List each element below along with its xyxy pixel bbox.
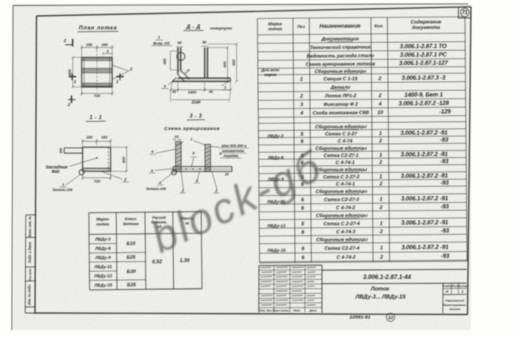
svg-text:Фиксатор Ф 2: Фиксатор Ф 2 [323,102,358,108]
svg-text:ЛВДу-6: ЛВДу-6 [94,246,111,251]
svg-text:90: 90 [202,41,206,45]
svg-text:-129: -129 [439,109,451,115]
svg-text:5: 5 [300,132,303,138]
svg-text:ЛВДу-9: ЛВДу-9 [94,255,111,260]
svg-text:Б25: Б25 [127,255,136,261]
svg-text:Подп.: Подп. [293,309,301,313]
svg-text:Листов: Листов [457,285,468,288]
svg-text:ЛВДу-15: ЛВДу-15 [93,282,112,287]
svg-text:Инв.дубл.: Инв.дубл. [28,268,32,281]
svg-text:5: 5 [301,222,304,228]
svg-text:Секция С 1-15: Секция С 1-15 [323,76,357,82]
svg-text:600: 600 [223,61,227,67]
svg-text:2: 2 [378,181,382,187]
svg-text:100: 100 [59,148,63,154]
svg-text:деталь-108: деталь-108 [53,188,73,192]
svg-text:12: 12 [388,315,394,321]
svg-text:Сетка С 2-27-2: Сетка С 2-27-2 [323,174,360,180]
svg-text:1,30: 1,30 [180,258,190,264]
svg-text:600: 600 [122,157,126,163]
svg-text:6: 6 [301,246,304,252]
svg-text:ЛВДу-3: ЛВДу-3 [267,133,284,138]
svg-text:1: 1 [62,183,64,187]
svg-text:Выкр. 102: Выкр. 102 [153,41,170,45]
svg-text:25: 25 [224,172,229,176]
svg-text:450: 450 [163,58,167,65]
svg-text:С 4-74-2: С 4-74-2 [336,255,355,261]
svg-text:С 4-74-1: С 4-74-1 [336,181,355,187]
svg-text:3 - 3: 3 - 3 [190,114,202,120]
svg-text:порядке: порядке [224,154,239,158]
svg-text:Сетка С 2-27: Сетка С 2-27 [325,131,357,137]
svg-text:Сетка С2-27-3: Сетка С2-27-3 [324,197,359,203]
svg-text:Д - Д: Д - Д [185,24,200,30]
svg-text:6: 6 [301,230,304,236]
svg-text:бетона: бетона [123,221,139,226]
svg-text:1: 1 [379,174,382,180]
svg-text:3.006.1-2.87.2 -91: 3.006.1-2.87.2 -91 [401,174,448,180]
svg-text:-93: -93 [440,181,449,187]
svg-text:Лоток: Лоток [370,286,391,292]
svg-text:2: 2 [379,229,383,235]
svg-text:Инв. № подл.: Инв. № подл. [28,284,32,305]
svg-text:Наименование: Наименование [319,24,360,30]
svg-text:Харьковский: Харьковский [444,299,464,303]
svg-text:6: 6 [301,206,304,212]
svg-text:ЛВДу-15: ЛВДу-15 [266,248,286,253]
svg-text:3.006.1-2.87.2 -128: 3.006.1-2.87.2 -128 [398,101,449,107]
svg-text:Содержание: Содержание [411,19,442,25]
svg-text:Сетка С 2-27-4: Сетка С 2-27-4 [324,221,361,227]
svg-text:повернуто: повернуто [210,25,233,30]
svg-text:71: 71 [462,10,468,16]
svg-text:3.006.1-2.87.1-44: 3.006.1-2.87.1-44 [363,274,412,281]
svg-text:лотка: лотка [267,26,283,31]
svg-text:60: 60 [209,90,213,94]
svg-text:1: 1 [380,245,383,251]
svg-text:3.006.1-2.87.3 -3: 3.006.1-2.87.3 -3 [401,75,446,81]
svg-text:1 - 1: 1 - 1 [90,115,102,121]
svg-text:2: 2 [378,93,382,99]
svg-text:2: 2 [460,290,463,294]
svg-text:2: 2 [379,205,383,211]
svg-text:ЛВДу-13: ЛВДу-13 [266,223,286,228]
svg-text:-93: -93 [441,228,450,234]
svg-text:2140: 2140 [190,100,201,105]
svg-text:1: 1 [380,221,383,227]
svg-text:ЛВДу-3: ЛВДу-3 [94,236,111,241]
svg-text:шахматном: шахматном [222,149,244,153]
svg-text:ЛВДу-11: ЛВДу-11 [93,264,112,269]
svg-text:Шаг 600-300 в: Шаг 600-300 в [222,144,248,148]
svg-text:180: 180 [86,43,93,47]
svg-text:3: 3 [106,49,108,53]
svg-text:-93: -93 [440,204,449,210]
svg-text:деталь-108: деталь-108 [146,187,166,191]
svg-text:3.006.1-2.87.1 ТО: 3.006.1-2.87.1 ТО [400,44,447,50]
svg-text:Ф40: Ф40 [52,169,61,174]
svg-text:0,52: 0,52 [152,259,162,265]
svg-text:180: 180 [101,135,108,139]
svg-text:1: 1 [158,36,160,40]
svg-text:720: 720 [94,94,101,98]
svg-text:180: 180 [101,43,108,47]
svg-text:2: 2 [378,138,382,144]
svg-text:Изм. Кол.: Изм. Кол. [260,309,273,313]
svg-text:600: 600 [68,68,72,75]
svg-text:Б15: Б15 [126,241,135,247]
svg-text:марок: марок [264,72,277,77]
svg-text:45: 45 [171,90,176,94]
svg-text:Кол.: Кол. [374,23,383,28]
svg-text:3.006.1-2.87.1 РС: 3.006.1-2.87.1 РС [400,52,448,58]
svg-text:проект: проект [449,307,461,311]
svg-text:Сетка С2-27-4: Сетка С2-27-4 [324,246,359,252]
svg-text:3.006.1-2.87.2 -91: 3.006.1-2.87.2 -91 [401,196,448,202]
svg-text:1400-9, Бет 1: 1400-9, Бет 1 [404,92,443,98]
svg-text:Ведомость расхода стали: Ведомость расхода стали [307,53,374,60]
svg-text:3.006.1-2.87.1-127: 3.006.1-2.87.1-127 [399,61,449,67]
svg-text:3.006.1-2.87.2 -91: 3.006.1-2.87.2 -91 [401,245,448,251]
svg-text:Лист №док.: Лист №док. [272,309,290,313]
svg-text:180: 180 [86,136,93,140]
svg-text:90: 90 [177,41,181,45]
svg-text:720: 720 [94,179,101,183]
svg-text:22991-81: 22991-81 [349,315,371,321]
svg-text:1400: 1400 [188,91,197,95]
svg-text:Подп. и дата: Подп. и дата [28,242,32,263]
svg-text:С 4-74-3: С 4-74-3 [336,229,355,235]
svg-text:650: 650 [232,59,236,65]
svg-text:Лоток ЛР1-2: Лоток ЛР1-2 [324,93,357,99]
svg-text:2: 2 [378,160,382,166]
svg-text:Сетка С2-27-1: Сетка С2-27-1 [324,153,359,159]
svg-text:3.006.1-2.87.2 -91: 3.006.1-2.87.2 -91 [401,152,448,158]
svg-text:2: 2 [377,76,381,82]
svg-text:Взам. инв. №: Взам. инв. № [28,216,32,237]
svg-text:3: 3 [300,102,303,108]
svg-text:С 4-74-1: С 4-74-1 [336,160,355,166]
svg-text:-93: -93 [441,254,450,260]
svg-text:Схема армирования: Схема армирования [164,126,220,132]
svg-text:1: 1 [300,77,303,83]
svg-text:-93: -93 [440,159,449,165]
svg-text:С 4-74-2: С 4-74-2 [336,205,355,211]
svg-text:3.006.1-2.87.2 -91: 3.006.1-2.87.2 -91 [401,220,448,226]
svg-text:План лотка: План лотка [79,26,117,32]
svg-text:2: 2 [299,94,303,100]
svg-text:4: 4 [299,111,303,117]
svg-text:1: 1 [190,138,192,142]
svg-text:Б35: Б35 [127,282,136,288]
svg-text:Дата: Дата [308,309,317,313]
svg-text:Схема армирования лотков: Схема армирования лотков [306,61,376,68]
svg-text:1: 1 [379,153,382,159]
svg-text:документа: документа [412,25,440,31]
svg-text:С 4-74: С 4-74 [338,138,353,144]
svg-text:Поз: Поз [297,24,306,29]
svg-text:2: 2 [379,254,383,260]
svg-text:Б30: Б30 [127,269,136,275]
svg-text:1: 1 [380,197,383,203]
svg-text:-93: -93 [440,138,449,144]
svg-text:4: 4 [378,101,382,107]
svg-text:лотка: лотка [95,221,110,226]
svg-text:6: 6 [302,255,305,261]
svg-text:3.006.1-2.87.2 -91: 3.006.1-2.87.2 -91 [400,130,447,136]
svg-text:1: 1 [379,131,382,137]
svg-text:ЛВДу-3... ЛВДу-15: ЛВДу-3... ЛВДу-15 [354,294,406,300]
svg-text:ЛВДу-13: ЛВДу-13 [93,273,112,278]
svg-text:10: 10 [377,110,383,116]
